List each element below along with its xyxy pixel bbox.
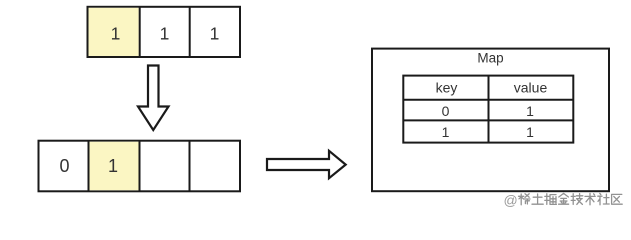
- svg-text:value: value: [514, 80, 548, 96]
- svg-text:1: 1: [111, 24, 121, 44]
- svg-text:Map: Map: [477, 51, 503, 66]
- array row 1 (3 cells) outer box: [88, 7, 241, 57]
- svg-text:1: 1: [210, 24, 220, 44]
- array row 1 divider 1: [139, 7, 141, 57]
- array row 2 divider 2: [139, 141, 141, 192]
- array row 2 divider 3: [189, 141, 191, 192]
- char 社: [598, 193, 609, 204]
- hash table row divider 1: [403, 99, 573, 101]
- svg-text:1: 1: [526, 103, 534, 119]
- char 掘: [545, 194, 557, 205]
- array row 2 divider 1: [88, 141, 90, 192]
- array row 2 (4 cells) outer box: [39, 141, 241, 192]
- hash table row divider 2: [403, 119, 573, 121]
- array row 1 cell A[0] yellow fill: [89, 8, 139, 56]
- watermark CJK glyph approximations: [519, 193, 623, 204]
- char 技: [571, 194, 583, 205]
- svg-text:1: 1: [526, 124, 534, 140]
- char 术: [585, 193, 595, 204]
- char 区: [612, 194, 623, 204]
- svg-text:1: 1: [160, 24, 170, 44]
- char 稀: [519, 194, 531, 205]
- char 金: [559, 193, 569, 204]
- svg-text:0: 0: [442, 103, 450, 119]
- array row 1 divider 2: [189, 7, 191, 57]
- char 土: [532, 194, 543, 204]
- svg-text:key: key: [436, 80, 458, 96]
- svg-text:1: 1: [442, 124, 450, 140]
- hash table outer box: [403, 76, 573, 143]
- Map container box: [372, 49, 609, 192]
- svg-text:@: @: [504, 192, 518, 208]
- down block arrow: [138, 66, 169, 131]
- right block arrow: [267, 151, 346, 178]
- svg-text:0: 0: [59, 156, 69, 176]
- array row 2 cell B[1] yellow fill: [90, 142, 139, 191]
- svg-text:1: 1: [108, 156, 118, 176]
- hash table column divider: [488, 76, 490, 143]
